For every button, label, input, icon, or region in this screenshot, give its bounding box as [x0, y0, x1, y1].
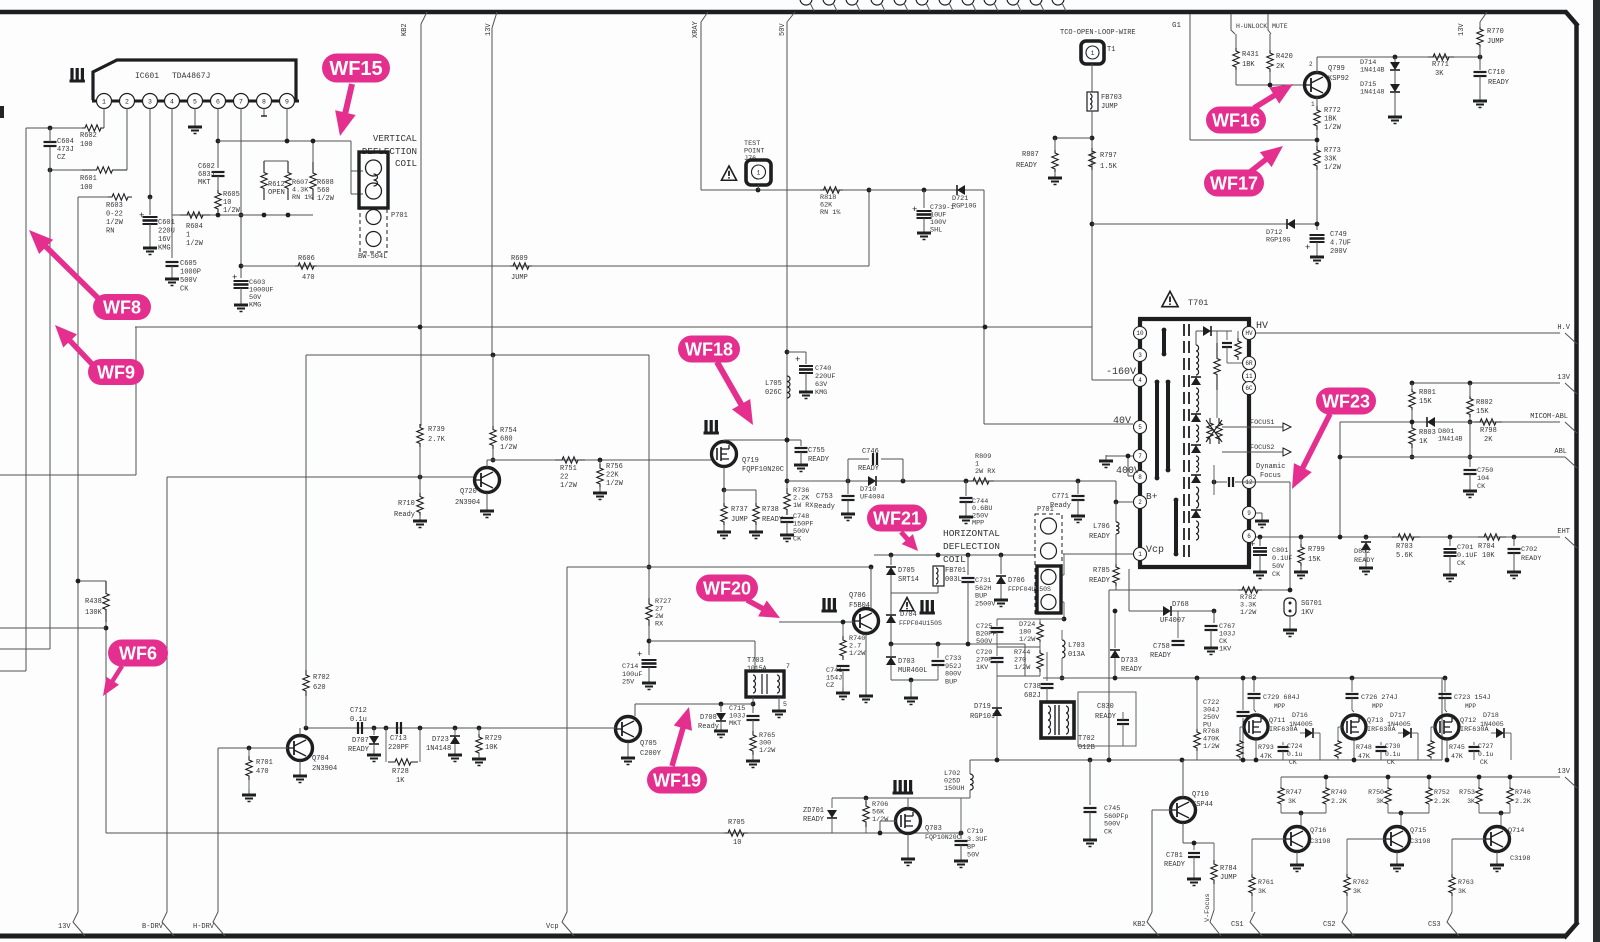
svg-text:C726 274J: C726 274J: [1361, 694, 1398, 702]
resistor R604: [180, 212, 210, 218]
electrolytic C801: [1259, 537, 1261, 546]
vertical deflection coil block: [359, 152, 388, 208]
svg-text:800V: 800V: [945, 671, 962, 679]
transformer T703: [746, 671, 784, 697]
ground: [755, 526, 757, 532]
wire B+ row: [1116, 501, 1133, 503]
svg-text:RN 1%: RN 1%: [820, 209, 841, 217]
svg-text:C753: C753: [816, 493, 833, 501]
wire pin5: [194, 108, 196, 124]
svg-text:D733: D733: [1121, 657, 1138, 665]
callout arrow WF23: [1301, 414, 1330, 470]
wire ABL row y457: [1340, 456, 1565, 458]
svg-text:READY: READY: [803, 816, 825, 824]
svg-text:9: 9: [1247, 510, 1251, 517]
svg-text:C749: C749: [1330, 231, 1347, 239]
wire 13V rail y355: [306, 354, 649, 356]
tab 13V mid: [1565, 777, 1577, 788]
ground: [419, 515, 421, 521]
T701 pin 5: [1134, 421, 1147, 434]
svg-text:47K: 47K: [1260, 753, 1272, 760]
svg-text:R751: R751: [560, 465, 577, 473]
left staircase wires: [0, 627, 106, 629]
svg-text:9: 9: [285, 99, 289, 106]
resistor R752 2.2K: [1428, 777, 1430, 789]
svg-text:CK: CK: [1272, 571, 1281, 579]
svg-text:3.3UF: 3.3UF: [967, 836, 987, 844]
callout WF8: [93, 294, 151, 320]
resistor R608: [310, 162, 316, 200]
svg-text:1BK: 1BK: [1324, 116, 1337, 124]
callout WF21: [867, 505, 927, 532]
wire drain Q719: [723, 440, 725, 441]
svg-text:15K: 15K: [1308, 556, 1321, 564]
svg-text:XRAY: XRAY: [692, 20, 700, 38]
svg-text:MKT: MKT: [729, 720, 741, 728]
T701 pin 1: [1134, 548, 1147, 561]
svg-text:3K: 3K: [1467, 798, 1475, 805]
svg-text:+: +: [139, 211, 144, 221]
wire drain Q703: [907, 798, 909, 808]
capacitor C771: [1077, 481, 1079, 494]
tab 13V: [1565, 383, 1577, 394]
wire v985 to 40V: [984, 327, 986, 424]
svg-text:100uF: 100uF: [622, 671, 642, 679]
svg-text:R770: R770: [1487, 28, 1504, 36]
resistor R736: [784, 488, 790, 515]
wire collector node: [1280, 804, 1282, 813]
wire B-DRV col: [166, 477, 168, 912]
ground pin5: [194, 121, 196, 127]
capacitor pin12: [1228, 477, 1230, 487]
svg-text:0.1u: 0.1u: [350, 716, 367, 724]
svg-text:D802: D802: [1354, 548, 1370, 556]
svg-text:BUP: BUP: [975, 593, 987, 601]
wire xray col: [700, 22, 702, 190]
svg-text:50V: 50V: [967, 851, 980, 859]
svg-text:1.5K: 1.5K: [1100, 163, 1118, 171]
wire pin8 stub: [1127, 456, 1129, 476]
wire row y141: [218, 140, 351, 142]
svg-text:V-Focus: V-Focus: [1204, 893, 1212, 922]
svg-text:500V: 500V: [976, 638, 993, 646]
svg-text:WF23: WF23: [1322, 391, 1370, 411]
svg-text:1W RX: 1W RX: [793, 502, 813, 510]
svg-text:C604: C604: [57, 138, 74, 146]
svg-text:Q703: Q703: [925, 825, 942, 833]
svg-text:R750: R750: [1368, 789, 1384, 796]
svg-text:013A: 013A: [1068, 651, 1086, 659]
svg-text:C746: C746: [862, 448, 879, 456]
diode D802: [1365, 537, 1367, 540]
T701 pin 11: [1243, 370, 1256, 383]
wire rail 13V corner: [1280, 777, 1282, 788]
svg-text:R702: R702: [313, 674, 330, 682]
svg-text:3K: 3K: [1258, 888, 1266, 895]
T701 pin 4: [1134, 374, 1147, 387]
resistor R785: [1113, 564, 1119, 586]
bracket MUTE: [1268, 14, 1271, 34]
resistor R702: [305, 355, 307, 672]
ground: [800, 459, 802, 465]
ground: [1289, 624, 1291, 630]
wire 50V col: [786, 22, 788, 327]
svg-text:R801: R801: [1419, 389, 1436, 397]
svg-text:FOCUS1: FOCUS1: [1250, 419, 1274, 427]
wire pin4 T703: [752, 697, 754, 713]
capacitor C740: [787, 351, 806, 353]
svg-text:Ready: Ready: [394, 511, 415, 519]
svg-text:2N3904: 2N3904: [312, 765, 337, 773]
svg-text:CK: CK: [1104, 828, 1113, 836]
svg-text:1: 1: [102, 99, 106, 106]
resistor R740: [842, 622, 844, 638]
wire G1: [1189, 14, 1191, 140]
svg-text:C729 684J: C729 684J: [1263, 694, 1300, 702]
svg-text:2N3904: 2N3904: [455, 499, 480, 507]
svg-text:B+: B+: [1146, 491, 1158, 502]
ground: [1496, 859, 1498, 865]
svg-text:TCO-OPEN-LOOP-WIRE: TCO-OPEN-LOOP-WIRE: [1060, 29, 1136, 37]
svg-text:CK: CK: [793, 536, 802, 544]
svg-text:R798: R798: [1480, 427, 1497, 435]
svg-text:R604: R604: [186, 223, 203, 231]
ground: [865, 690, 867, 696]
svg-text:C701: C701: [1457, 544, 1473, 552]
wire H-DRV col: [217, 748, 219, 912]
callout arrow WF8: [44, 245, 100, 300]
resistor R754: [492, 355, 494, 428]
svg-text:-160V: -160V: [1106, 367, 1136, 378]
svg-text:C758: C758: [1153, 643, 1170, 651]
svg-text:VERTICAL: VERTICAL: [373, 133, 417, 144]
svg-text:MICOM-ABL: MICOM-ABL: [1530, 413, 1568, 421]
ground: [778, 705, 780, 711]
wire collector Q704: [299, 728, 301, 735]
svg-text:OPEN: OPEN: [268, 189, 285, 197]
svg-text:3K: 3K: [1353, 888, 1361, 895]
wire pin5 T703: [778, 697, 780, 708]
page bottom-right corner: [1564, 922, 1578, 938]
svg-text:2: 2: [1138, 499, 1142, 506]
svg-text:2500V: 2500V: [975, 600, 996, 608]
svg-text:Q715: Q715: [1410, 827, 1426, 835]
resistor R609: [510, 263, 532, 269]
svg-text:FB703: FB703: [1101, 94, 1122, 102]
svg-text:012B: 012B: [1078, 744, 1095, 752]
wire: [78, 196, 108, 198]
svg-text:MKT: MKT: [198, 179, 211, 187]
svg-text:KMG: KMG: [815, 389, 827, 397]
svg-text:READY: READY: [1095, 713, 1117, 721]
svg-text:SG701: SG701: [1301, 600, 1322, 608]
ground: [923, 227, 925, 233]
svg-text:1/2W: 1/2W: [759, 747, 776, 755]
wire focus1: [1222, 426, 1283, 428]
wire D768 row y611: [1129, 610, 1214, 612]
svg-text:C740: C740: [815, 365, 831, 373]
wire -160V: [1092, 379, 1133, 381]
transistor Q720: [475, 468, 500, 493]
resistor R710: [417, 493, 423, 516]
wire collector Q720: [486, 460, 488, 467]
svg-text:1/2W: 1/2W: [1240, 609, 1257, 617]
svg-text:R807: R807: [1022, 151, 1039, 159]
callout WF16: [1206, 107, 1266, 134]
wire: [26, 127, 82, 129]
wire base Q710: [1152, 809, 1171, 811]
svg-text:5: 5: [1138, 424, 1142, 431]
wire R782 row y590: [1109, 589, 1290, 591]
wire collector Q705: [634, 704, 636, 716]
resistor R728 bypass: [385, 728, 387, 762]
capacitor C781: [1193, 843, 1195, 850]
svg-text:0.1u: 0.1u: [1478, 751, 1494, 758]
svg-text:C750: C750: [1477, 467, 1493, 475]
capacitor C741: [837, 665, 850, 667]
wire row y138: [1055, 137, 1092, 139]
connector P701 dashed: [360, 208, 387, 252]
resistor R751: [555, 457, 585, 463]
svg-text:UF4004: UF4004: [860, 494, 884, 502]
svg-text:C710: C710: [1488, 69, 1505, 77]
svg-text:2: 2: [125, 99, 129, 106]
svg-text:40V: 40V: [1113, 416, 1131, 427]
svg-text:10: 10: [733, 839, 741, 847]
capacitor C724: [1282, 742, 1284, 745]
inductor L702: [969, 760, 971, 774]
ground: [842, 687, 844, 693]
wire base row Q704: [218, 747, 288, 749]
wire pin4: [171, 108, 173, 258]
wire source Q703: [907, 834, 909, 856]
transistor Q715: [1385, 827, 1410, 852]
svg-text:C605: C605: [180, 260, 197, 268]
resistor R803: [1409, 424, 1415, 448]
svg-text:2.2K: 2.2K: [1331, 798, 1347, 805]
svg-text:READY: READY: [808, 456, 830, 464]
svg-text:C830: C830: [1097, 703, 1114, 711]
wire rail y327: [135, 326, 1092, 328]
svg-text:CZ: CZ: [826, 682, 834, 690]
svg-text:003L: 003L: [945, 576, 962, 584]
ferrite bead FB703: [1087, 92, 1098, 111]
svg-text:JUMP: JUMP: [1220, 874, 1237, 882]
svg-text:R608: R608: [317, 179, 334, 187]
svg-text:R754: R754: [500, 427, 517, 435]
T701 winding bar 4: [1174, 500, 1178, 554]
callout arrow WF9: [68, 339, 92, 364]
svg-text:1N4148: 1N4148: [1360, 89, 1384, 97]
warning triangle T701: [1162, 291, 1178, 306]
diode D721: [957, 185, 965, 195]
svg-text:1K: 1K: [396, 777, 405, 785]
ground: [171, 273, 173, 279]
svg-text:READY: READY: [1089, 533, 1111, 541]
capacitor C725 loop: [996, 619, 998, 626]
resistor R748 47K: [1335, 740, 1341, 758]
svg-text:1/2W: 1/2W: [560, 482, 578, 490]
resistor R762: [1344, 874, 1350, 896]
callout arrow WF18: [717, 362, 743, 407]
tab ABL: [1565, 457, 1577, 468]
svg-text:1N4005: 1N4005: [1289, 721, 1313, 728]
svg-text:C738: C738: [1024, 683, 1041, 691]
wire row y190: [701, 189, 869, 191]
svg-text:10: 10: [223, 199, 231, 207]
svg-text:JUMP: JUMP: [511, 274, 528, 282]
svg-text:READY: READY: [1089, 577, 1111, 585]
ground: [907, 853, 909, 859]
T701 pin HV: [1243, 327, 1256, 340]
svg-text:+: +: [795, 355, 800, 365]
wire pin3: [149, 108, 151, 197]
T701 pin 7: [1134, 450, 1147, 463]
capacitor C727: [1473, 742, 1475, 745]
wire collector Q706: [870, 567, 872, 609]
page right edge strip: [1593, 0, 1600, 942]
capacitor C733: [937, 644, 939, 658]
svg-text:3K: 3K: [1376, 798, 1384, 805]
connector P701 dashed: [1035, 514, 1062, 614]
svg-text:1N414B: 1N414B: [1360, 67, 1384, 75]
wire R705 row y833: [106, 832, 961, 834]
svg-text:470: 470: [302, 274, 315, 282]
svg-text:R704: R704: [1478, 543, 1495, 551]
svg-text:WF16: WF16: [1212, 110, 1260, 130]
wire 400V gnd: [1106, 455, 1133, 457]
svg-text:1: 1: [1138, 551, 1142, 558]
svg-text:BW-504L: BW-504L: [358, 253, 387, 261]
focus cap/res pair: [1226, 331, 1228, 340]
callout arrow WF15: [345, 84, 352, 116]
svg-text:R701: R701: [256, 759, 273, 767]
resistor R770: [1479, 22, 1481, 27]
svg-text:R752: R752: [1434, 789, 1450, 796]
ground: [1259, 566, 1261, 572]
svg-text:2W RX: 2W RX: [975, 468, 995, 476]
svg-text:1015A: 1015A: [747, 665, 767, 672]
svg-text:0-22: 0-22: [106, 211, 123, 219]
svg-text:ZD701: ZD701: [803, 807, 824, 815]
svg-text:RGP10G: RGP10G: [952, 203, 976, 211]
svg-text:1/2W: 1/2W: [106, 219, 124, 227]
svg-text:R772: R772: [1324, 107, 1341, 115]
pin8 stub: [263, 108, 265, 116]
transistor Q706: [822, 598, 825, 611]
svg-text:2.2K: 2.2K: [1515, 798, 1531, 805]
resistor R773: [1314, 146, 1320, 170]
capacitor C748: [781, 517, 794, 519]
svg-text:0.1u: 0.1u: [1385, 751, 1401, 758]
resistor R809: [968, 478, 994, 484]
callout WF9: [88, 359, 144, 385]
diode HV top: [1196, 330, 1232, 332]
diode D768: [1163, 606, 1171, 616]
svg-text:C3198: C3198: [1410, 838, 1430, 846]
resistor R605: [215, 190, 221, 212]
svg-text:R438: R438: [85, 598, 102, 606]
wire HV out: [1256, 332, 1560, 334]
transformer T702: [1041, 702, 1074, 738]
svg-text:R745: R745: [1449, 744, 1465, 751]
svg-text:JUMP: JUMP: [1101, 103, 1118, 111]
svg-text:7: 7: [1138, 453, 1142, 460]
svg-text:MUTE: MUTE: [1272, 23, 1288, 30]
svg-text:SHL: SHL: [930, 227, 942, 235]
svg-text:C771: C771: [1052, 493, 1069, 501]
svg-text:READY: READY: [1016, 162, 1038, 170]
tab EHT: [1565, 537, 1577, 548]
svg-text:13V: 13V: [58, 923, 71, 931]
svg-text:22: 22: [560, 474, 568, 482]
svg-text:R737: R737: [731, 506, 748, 514]
wire base Q706: [779, 621, 854, 623]
svg-text:HORIZONTAL: HORIZONTAL: [943, 528, 1000, 539]
svg-text:WF20: WF20: [703, 578, 751, 598]
svg-text:1/2W: 1/2W: [606, 480, 624, 488]
svg-text:50V: 50V: [779, 23, 787, 36]
svg-text:R793: R793: [1258, 744, 1274, 751]
wire rail y475: [0, 474, 136, 476]
callout arrow WF16: [1254, 94, 1277, 108]
svg-text:CK: CK: [1477, 483, 1486, 491]
svg-text:5.6K: 5.6K: [1396, 552, 1414, 560]
wire pin1: [103, 108, 105, 128]
wire v961: [960, 798, 962, 833]
svg-text:+: +: [1250, 540, 1255, 550]
wire Vcp col: [566, 567, 568, 912]
ground: [1300, 566, 1302, 572]
tab H.V: [1565, 333, 1577, 344]
svg-text:1/2W: 1/2W: [872, 816, 889, 824]
capacitor C604: [44, 141, 57, 143]
svg-text:1/2W: 1/2W: [1014, 664, 1031, 672]
callout arrow WF6: [111, 666, 122, 683]
svg-text:7: 7: [239, 99, 243, 106]
wire emitter Q710: [1182, 823, 1184, 843]
diode D723: [454, 728, 456, 735]
wire base rail y477: [167, 476, 475, 478]
svg-text:DEFLECTION: DEFLECTION: [943, 541, 1000, 552]
svg-text:500V: 500V: [1104, 821, 1121, 829]
wire base Q715: [1347, 838, 1385, 840]
capacitor C744: [965, 481, 967, 496]
svg-text:3K: 3K: [1435, 70, 1444, 78]
resistor R606: [295, 263, 317, 269]
svg-text:1: 1: [757, 170, 761, 177]
svg-text:Q713: Q713: [1367, 717, 1383, 725]
svg-text:D704: D704: [900, 611, 917, 619]
svg-text:D703: D703: [898, 658, 915, 666]
callout WF19: [647, 767, 707, 794]
svg-text:WF19: WF19: [653, 770, 701, 790]
capacitor C702: [1513, 537, 1515, 546]
svg-text:L705: L705: [765, 380, 782, 388]
capacitor C712: [357, 722, 359, 734]
svg-text:470: 470: [256, 768, 269, 776]
zener ZD701: [831, 798, 833, 808]
resistor R782: [1238, 587, 1262, 593]
resistor R763: [1449, 874, 1455, 896]
wire base row y728: [306, 727, 616, 729]
resistor R706: [865, 798, 867, 803]
wire left col x50: [49, 170, 51, 649]
svg-text:Q799: Q799: [1328, 65, 1345, 73]
svg-text:3K: 3K: [1458, 888, 1466, 895]
svg-text:R746: R746: [1515, 789, 1531, 796]
svg-text:1K: 1K: [1419, 438, 1428, 446]
